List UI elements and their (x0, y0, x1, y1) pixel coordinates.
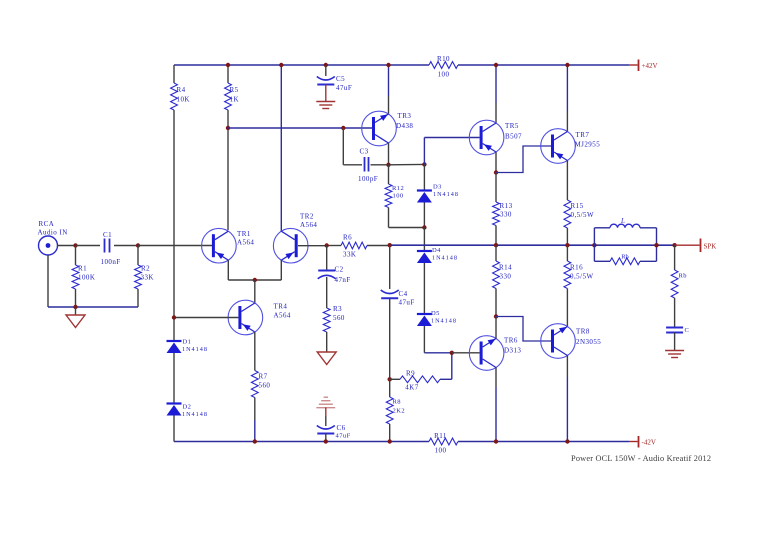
svg-text:560: 560 (259, 382, 271, 390)
wire C4 to R9 node (389, 298, 391, 379)
wire bottom -42V rail (174, 441, 629, 443)
svg-text:1N4148: 1N4148 (433, 191, 459, 198)
wire node to C1 (76, 245, 101, 247)
node TR6 base (450, 351, 454, 355)
svg-text:C1: C1 (103, 231, 112, 239)
resistor R7 (251, 332, 270, 442)
node TR4 base (172, 315, 176, 319)
svg-text:TR1: TR1 (237, 230, 251, 238)
diode D3 (417, 164, 459, 227)
svg-text:R8: R8 (393, 399, 402, 406)
svg-text:R7: R7 (259, 373, 268, 381)
wire bridge to TR4 (254, 280, 256, 303)
wire top +42V rail (174, 64, 629, 66)
svg-text:100: 100 (435, 447, 447, 455)
svg-text:47uF: 47uF (336, 433, 351, 440)
wire TR3 collector to rail (388, 65, 390, 114)
node D3 bottom (422, 225, 426, 229)
svg-text:0,5/5W: 0,5/5W (571, 211, 595, 219)
svg-text:Rb: Rb (679, 273, 688, 280)
capacitor C2 (318, 246, 351, 285)
node TR5 emitter (494, 170, 498, 174)
svg-text:33K: 33K (141, 274, 154, 282)
node C5 rail (324, 63, 328, 67)
transistor TR1 A564 (202, 228, 255, 263)
svg-text:RCA: RCA (39, 220, 55, 228)
wire RCA to node (58, 245, 76, 247)
wire box left edge (593, 228, 595, 261)
terminal +42V (629, 60, 658, 72)
wire TR8 emitter down (566, 356, 568, 442)
svg-text:1N4148: 1N4148 (182, 346, 208, 353)
transistor TR8 2N3055 (541, 324, 602, 359)
wire R5 to TR3 base (228, 127, 372, 129)
capacitor C4 (381, 245, 415, 306)
resistor R5 (225, 83, 239, 110)
svg-text:R5: R5 (230, 86, 239, 94)
wire RCA shield down (47, 255, 49, 307)
resistor R10 (429, 55, 458, 79)
svg-text:100nF: 100nF (101, 258, 121, 266)
svg-text:Power OCL 150W - Audio Kreatif: Power OCL 150W - Audio Kreatif 2012 (571, 454, 711, 463)
wire TR1 emitter down (227, 260, 229, 280)
terminal -42V (629, 436, 656, 448)
node R5-TR3 junction (226, 126, 230, 130)
wire TR2 collector to rail (280, 65, 282, 231)
wire TR5 emitter down (495, 152, 497, 173)
svg-text:C2: C2 (335, 266, 344, 274)
node R5 rail (226, 63, 230, 67)
svg-text:B507: B507 (505, 133, 522, 141)
svg-text:R12: R12 (392, 185, 404, 192)
svg-text:D4: D4 (432, 247, 441, 254)
svg-text:330: 330 (500, 273, 512, 281)
wire D5 down (423, 326, 425, 353)
node box right (654, 243, 658, 247)
wire box right edge (656, 228, 658, 261)
transistor TR2 A564 (273, 213, 317, 264)
svg-text:100K: 100K (78, 274, 95, 282)
svg-text:TR5: TR5 (505, 122, 519, 130)
wire TR5 to TR7 base (496, 146, 551, 173)
resistor R14 (493, 245, 512, 316)
wire C6 down (325, 434, 327, 442)
wire D4-D5 (423, 263, 425, 314)
transistor TR3 D438 (362, 111, 414, 146)
node rail x389 (388, 243, 392, 247)
svg-text:Audio IN: Audio IN (38, 229, 68, 237)
svg-text:TR6: TR6 (504, 337, 518, 345)
wire TR2 base to node (298, 245, 327, 247)
wire R12 to diode chain (389, 227, 425, 229)
wire diode chain upper (423, 228, 425, 252)
svg-text:33K: 33K (343, 251, 356, 259)
capacitor C1 (101, 231, 121, 266)
node after C1 (136, 243, 140, 247)
resistor R1 (72, 246, 95, 308)
wire D5 to TR6 base node (424, 352, 452, 354)
capacitor C3 (358, 148, 378, 184)
svg-text:SPK: SPK (704, 243, 717, 251)
svg-text:L: L (620, 217, 625, 225)
node box left (592, 243, 596, 247)
svg-text:R1: R1 (78, 265, 87, 273)
wire emitter node to D3 node (389, 163, 425, 165)
svg-text:D2: D2 (183, 404, 192, 411)
capacitor C5 (317, 65, 352, 92)
svg-text:Rb: Rb (621, 254, 629, 261)
svg-text:A564: A564 (300, 221, 317, 229)
node R9 left (388, 377, 392, 381)
svg-text:1N4148: 1N4148 (432, 255, 458, 262)
svg-text:D1: D1 (183, 339, 192, 346)
svg-text:47uF: 47uF (336, 84, 352, 92)
node R7 bottom (253, 439, 257, 443)
ground C6 chassis (316, 397, 335, 416)
transistor TR5 B507 (469, 120, 522, 155)
ground C5 (316, 85, 335, 109)
wire input ground bus (48, 306, 138, 308)
wire TR3 emitter down (388, 143, 390, 165)
svg-text:R9: R9 (406, 370, 415, 378)
node C6 bottom (324, 439, 328, 443)
svg-text:2N3055: 2N3055 (576, 338, 601, 346)
svg-text:330: 330 (500, 211, 512, 219)
wire base TR1 (138, 245, 212, 247)
wire TR7 collector to rail (566, 65, 568, 132)
svg-text:0,5/5W: 0,5/5W (570, 273, 594, 281)
svg-text:D438: D438 (396, 122, 413, 130)
resistor R4 (171, 83, 190, 110)
svg-text:R14: R14 (499, 264, 512, 272)
svg-text:1N4148: 1N4148 (182, 411, 208, 418)
svg-text:100: 100 (438, 71, 450, 79)
svg-text:R6: R6 (343, 234, 352, 242)
svg-text:R16: R16 (570, 264, 583, 272)
svg-text:47uF: 47uF (399, 299, 415, 307)
wire C3 to emitter node (371, 164, 389, 166)
svg-text:C5: C5 (336, 75, 345, 83)
svg-text:1K: 1K (230, 96, 239, 104)
svg-text:R10: R10 (437, 55, 450, 63)
wire R5 column (227, 65, 229, 230)
resistor R8 (386, 379, 405, 441)
node TR2 base rail (325, 243, 329, 247)
transistor TR4 A564 (228, 300, 291, 335)
node TR3 emitter (386, 163, 390, 167)
ground R3 (317, 352, 336, 365)
connector RCA Audio IN (38, 220, 68, 255)
svg-text:A564: A564 (237, 239, 254, 247)
svg-text:R4: R4 (177, 86, 186, 94)
node TR6 collector (494, 314, 498, 318)
wire C3 branch (343, 128, 362, 165)
svg-text:TR8: TR8 (576, 328, 590, 336)
node input ground (73, 305, 77, 309)
svg-text:A564: A564 (274, 312, 291, 320)
wire signal rail (327, 244, 675, 246)
node TR5 rail (494, 63, 498, 67)
wire TR4 base (174, 317, 238, 319)
wire left column (173, 65, 175, 442)
svg-text:TR3: TR3 (398, 112, 412, 120)
resistor R6 (341, 234, 367, 259)
svg-text:R15: R15 (571, 202, 584, 210)
resistor R12 (385, 165, 404, 228)
svg-text:R11: R11 (434, 432, 447, 440)
wire TR6 collector up (495, 317, 497, 339)
transistor TR7 MJ2955 (541, 129, 600, 164)
resistor R16 (564, 245, 594, 326)
transistor TR6 D313 (469, 336, 521, 371)
resistor R9 (390, 370, 452, 392)
svg-text:TR7: TR7 (576, 131, 590, 139)
capacitor C zobel (666, 327, 689, 334)
svg-text:C3: C3 (360, 148, 369, 156)
diode D1 (167, 339, 208, 354)
svg-text:R3: R3 (333, 305, 342, 313)
wire TR6 base stub (452, 352, 480, 354)
wire to TR5 base (424, 138, 479, 165)
svg-text:D5: D5 (431, 310, 440, 317)
node input (73, 243, 77, 247)
node rail x496 (494, 243, 498, 247)
svg-text:-42V: -42V (642, 439, 656, 447)
node C3 branch junction (341, 126, 345, 130)
node output (672, 243, 676, 247)
resistor Rb parallel (594, 254, 656, 265)
diode D2 (167, 404, 208, 419)
node R8 bottom (388, 439, 392, 443)
node D3 top (422, 162, 426, 166)
inductor L (594, 217, 656, 228)
wire TR8 collector up (566, 326, 568, 328)
resistor R15 (564, 200, 594, 245)
svg-text:+42V: +42V (642, 62, 658, 70)
svg-text:100: 100 (393, 193, 404, 200)
diode D4 (417, 247, 458, 263)
wire TR5 collector to rail (495, 65, 497, 123)
ground input (66, 307, 85, 328)
svg-text:C: C (685, 327, 690, 334)
svg-text:MJ2955: MJ2955 (575, 141, 601, 149)
wire TR6 to TR8 base (496, 317, 551, 342)
wire TR7 emitter down (566, 161, 568, 201)
svg-text:D3: D3 (433, 184, 442, 191)
wire C1 to node2 (114, 245, 138, 247)
wire TR6 emitter down (495, 368, 497, 442)
wire emitter bridge (228, 279, 281, 281)
title text (571, 454, 711, 463)
ground C zobel (665, 333, 684, 358)
svg-text:C6: C6 (337, 424, 346, 432)
svg-text:TR2: TR2 (300, 213, 314, 221)
resistor R11 (429, 432, 458, 455)
wire TR2 emitter down (280, 260, 282, 280)
svg-text:R2: R2 (141, 265, 150, 273)
svg-text:1N4148: 1N4148 (431, 318, 457, 325)
wire R9 up to TR6 base (451, 353, 453, 380)
svg-text:100pF: 100pF (358, 175, 378, 183)
node TR8 emitter rail (565, 439, 569, 443)
svg-text:TR4: TR4 (274, 303, 288, 311)
capacitor C6 (317, 416, 351, 440)
svg-text:2K2: 2K2 (393, 408, 406, 415)
node TR6 emitter rail (494, 439, 498, 443)
svg-text:D313: D313 (504, 347, 521, 355)
resistor R13 (493, 173, 513, 246)
resistor Rb series (671, 245, 687, 326)
svg-text:C4: C4 (399, 290, 408, 298)
node TR3 rail (386, 63, 390, 67)
resistor R3 (323, 277, 345, 352)
node emitter bridge (253, 278, 257, 282)
svg-text:10K: 10K (177, 96, 190, 104)
svg-text:560: 560 (333, 314, 345, 322)
diode D5 (417, 310, 457, 326)
node TR7 rail (565, 63, 569, 67)
node rail x567 (565, 243, 569, 247)
svg-text:R13: R13 (500, 202, 513, 210)
svg-text:4K7: 4K7 (405, 384, 418, 392)
resistor R2 (135, 246, 154, 308)
terminal SPK (675, 239, 717, 253)
node TR2 collector rail (279, 63, 283, 67)
svg-text:47nF: 47nF (335, 276, 351, 284)
